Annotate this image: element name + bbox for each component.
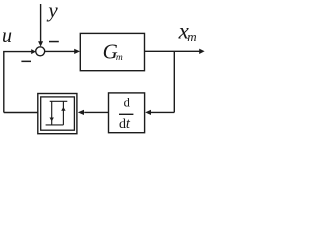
wire: hysteresis output to left feedback run [4, 112, 38, 114]
svg-text:u: u [2, 25, 12, 47]
wire: junction output to Gm block [45, 49, 80, 54]
hysteresis icon: bottom output level line [46, 124, 64, 126]
wire: Gm output to xm arrow [145, 49, 205, 54]
hysteresis icon: top output level line [50, 100, 68, 102]
svg-text:m: m [116, 53, 123, 63]
block Gm [80, 33, 144, 70]
svg-text:y: y [46, 0, 58, 22]
block hysteresis relay: inner border [41, 97, 75, 130]
wire: d/dt output into hysteresis block [78, 110, 109, 115]
wire: into d/dt block input [145, 110, 174, 115]
block d/dt [109, 93, 145, 133]
label xm [178, 19, 197, 45]
wire: u feedback up the left side and into summing junction [4, 49, 36, 112]
wire: y input vertical into summing junction [38, 4, 43, 47]
label Gm [103, 39, 123, 63]
hysteresis icon: rising transition with up arrow [61, 101, 65, 125]
svg-text:d: d [124, 95, 131, 109]
block hysteresis relay: outer border [38, 94, 77, 134]
hysteresis icon: falling transition with down arrow [50, 101, 54, 125]
wire: feedback tap down from output line [173, 51, 175, 112]
summing junction [36, 47, 45, 56]
minus sign at y input of junction [49, 41, 59, 43]
minus sign at u input of junction [21, 61, 31, 63]
label d/dt fraction [119, 95, 133, 131]
svg-text:m: m [187, 29, 196, 44]
